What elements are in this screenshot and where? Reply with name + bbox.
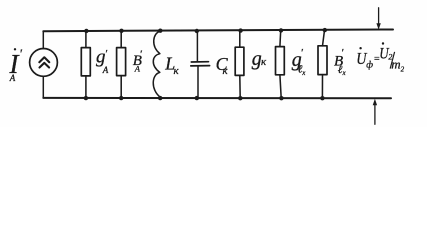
arrowhead bottom terminal bbox=[373, 99, 377, 105]
svg-text:′: ′ bbox=[19, 47, 22, 61]
svg-text:ф: ф bbox=[366, 60, 373, 71]
svg-text:А: А bbox=[9, 73, 16, 83]
wire bottom rail bbox=[43, 97, 391, 99]
wire resistor B'lx leads bbox=[323, 30, 325, 46]
node dot g'lx top bbox=[279, 28, 283, 32]
arrowhead top terminal bbox=[376, 23, 380, 29]
node dot gk top bbox=[238, 28, 242, 32]
wire current source top lead bbox=[42, 31, 44, 48]
node dot B'lx top bbox=[323, 28, 327, 32]
svg-text:х: х bbox=[342, 69, 347, 77]
node dot Ck bottom bbox=[195, 96, 199, 100]
wire current source bottom lead bbox=[42, 76, 44, 98]
svg-text:А: А bbox=[102, 65, 109, 75]
current source I'A circle bbox=[30, 49, 58, 77]
wire top rail bbox=[43, 30, 393, 32]
node dot g'A top bbox=[84, 29, 88, 33]
svg-text:′: ′ bbox=[140, 49, 143, 61]
svg-text:′: ′ bbox=[301, 47, 304, 59]
wire resistor g'A leads bbox=[85, 31, 87, 48]
resistor B'lx body bbox=[318, 46, 327, 75]
resistor B'A body bbox=[117, 48, 126, 76]
node dot B'lx bottom bbox=[320, 96, 324, 100]
resistor g'lx body bbox=[276, 47, 285, 75]
node dot Ck top bbox=[195, 29, 199, 33]
resistor gk body bbox=[235, 47, 244, 75]
svg-text:х: х bbox=[301, 69, 306, 77]
resistor g'A body bbox=[81, 48, 90, 76]
inductor Lk coil (3 left bumps) bbox=[153, 31, 160, 97]
node dot g'lx bottom bbox=[279, 96, 283, 100]
capacitor Ck top plate bbox=[191, 61, 208, 63]
node dot gk bottom bbox=[238, 96, 242, 100]
svg-text:′: ′ bbox=[105, 48, 108, 60]
node dot g'A bottom bbox=[84, 96, 88, 100]
node dot Lk bottom bbox=[158, 96, 162, 100]
wire resistor g'lx leads bbox=[279, 31, 282, 47]
node dot B'A bottom bbox=[119, 96, 123, 100]
svg-text:к: к bbox=[174, 65, 180, 77]
output terminal arrow bottom bbox=[374, 104, 376, 124]
wire resistor gk leads bbox=[239, 31, 241, 48]
svg-text:′: ′ bbox=[341, 47, 344, 59]
svg-text:к: к bbox=[223, 65, 229, 77]
node dot B'A top bbox=[119, 29, 123, 33]
output terminal arrow top bbox=[378, 8, 380, 24]
wire resistor B'A leads bbox=[120, 31, 122, 48]
capacitor Ck bottom lead bbox=[197, 66, 199, 98]
svg-text:m: m bbox=[391, 56, 400, 71]
capacitor Ck bottom plate bbox=[191, 65, 210, 67]
current source chevron arrows bbox=[39, 57, 49, 62]
svg-text:к: к bbox=[261, 56, 267, 68]
svg-text:А: А bbox=[134, 63, 141, 73]
svg-text:2: 2 bbox=[401, 66, 405, 74]
node dot Lk top bbox=[158, 29, 162, 33]
capacitor Ck top lead bbox=[196, 31, 198, 62]
